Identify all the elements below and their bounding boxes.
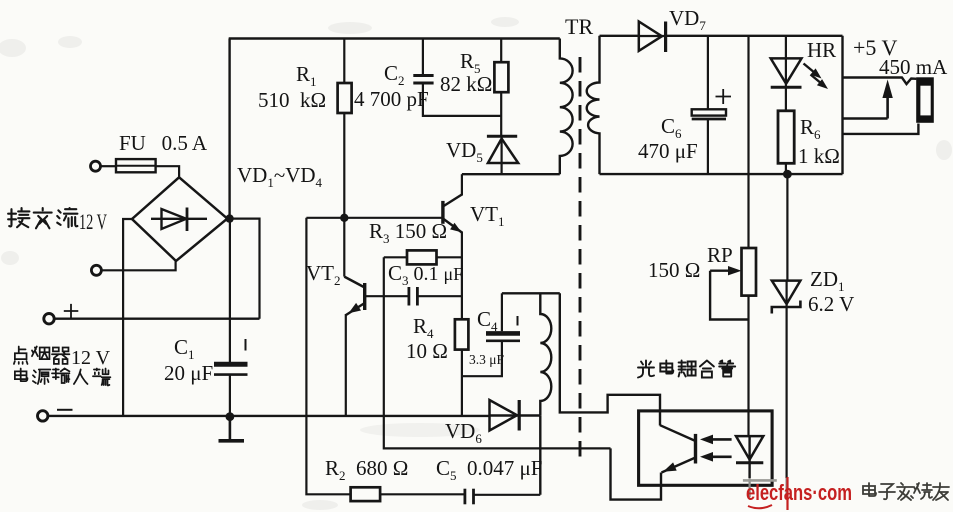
label dian yuan shu ru duan	[15, 368, 111, 385]
resistor R3	[384, 256, 407, 258]
wire bridge minus drop	[123, 219, 132, 416]
transistor VT1	[441, 201, 444, 224]
svg-text:C4: C4	[477, 307, 498, 334]
resistor R4	[455, 319, 469, 349]
HR emission arrows	[804, 64, 819, 76]
terminal minus	[38, 411, 48, 421]
watermark dian zi fa shao you	[863, 483, 949, 500]
svg-text:1 kΩ: 1 kΩ	[798, 144, 840, 168]
svg-text:C2: C2	[384, 61, 405, 88]
wire secondary top rail	[600, 35, 639, 37]
wire secondary bottom rail	[600, 173, 843, 175]
wire R2 drop	[306, 218, 350, 495]
capacitor C5	[463, 489, 466, 505]
svg-text:6.2 V: 6.2 V	[808, 292, 854, 316]
wire output sense lead	[843, 117, 888, 119]
svg-text:150 Ω: 150 Ω	[648, 258, 700, 282]
svg-text:C3 0.1 μF: C3 0.1 μF	[388, 261, 463, 288]
svg-text:FU 0.5 A: FU 0.5 A	[119, 131, 208, 155]
svg-text:10 Ω: 10 Ω	[406, 339, 448, 363]
wire output plus lead	[843, 78, 917, 85]
terminal AC input 2	[91, 265, 101, 275]
resistor R1	[343, 39, 345, 84]
wire C4 top to winding	[502, 292, 560, 294]
bridge rectifier VD1~VD4	[132, 177, 227, 261]
svg-text:4 700 pF: 4 700 pF	[354, 87, 429, 111]
svg-text:VD5: VD5	[446, 138, 483, 165]
svg-text:elecfans·com: elecfans·com	[746, 480, 852, 505]
opto LED	[736, 436, 763, 459]
wire	[156, 166, 180, 177]
wire top rail left	[229, 37, 560, 40]
resistor R6	[778, 111, 794, 164]
svg-text:C6: C6	[661, 114, 682, 141]
optocoupler box	[639, 411, 773, 485]
opto light arrows	[709, 438, 732, 441]
label jie jiao liu 12V (hand-drawn CJK)	[8, 208, 77, 228]
transistor VT2	[363, 283, 366, 310]
LED HR	[785, 36, 787, 88]
capacitor C2	[422, 39, 424, 75]
svg-text:C5 0.047 μF: C5 0.047 μF	[436, 456, 542, 483]
label minus	[57, 409, 73, 411]
svg-text:20 μF: 20 μF	[164, 361, 213, 385]
node R6 ground	[783, 170, 792, 179]
fuse FU	[116, 159, 156, 172]
capacitor C1	[229, 219, 231, 362]
node C1 ground	[226, 412, 235, 421]
svg-text:510 kΩ: 510 kΩ	[258, 88, 326, 112]
svg-text:VD6: VD6	[445, 419, 482, 446]
wire	[101, 165, 116, 167]
wire plus rail	[55, 318, 260, 320]
wire primary bottom	[462, 173, 560, 175]
svg-text:R3 150 Ω: R3 150 Ω	[369, 219, 447, 246]
arrow output up	[886, 93, 889, 119]
svg-text:VD1~VD4: VD1~VD4	[237, 163, 323, 190]
diode VD7	[639, 22, 662, 51]
transformer TR secondary winding	[587, 36, 600, 174]
label C6 plus	[716, 89, 732, 104]
resistor R5	[500, 39, 502, 63]
wire under watermark	[743, 479, 777, 482]
label dian yan qi 12V	[14, 346, 70, 363]
wire	[102, 261, 176, 270]
svg-text:470 μF: 470 μF	[638, 139, 698, 163]
diode VD6	[490, 400, 518, 431]
wire DC plus vertical	[228, 39, 230, 219]
wire VT2 base	[365, 295, 409, 297]
svg-text:VT1: VT1	[470, 202, 505, 229]
svg-text:R2 680 Ω: R2 680 Ω	[325, 456, 408, 483]
svg-text:RP: RP	[707, 243, 733, 267]
svg-text:C1: C1	[174, 335, 195, 362]
terminal plus	[44, 314, 54, 324]
svg-text:82 kΩ: 82 kΩ	[440, 72, 492, 96]
svg-text:R1: R1	[296, 62, 317, 89]
svg-text:ZD1: ZD1	[810, 267, 845, 294]
wire output right vertical	[841, 36, 843, 174]
wire	[230, 219, 260, 319]
capacitor C3	[407, 287, 410, 306]
label plus	[64, 304, 79, 318]
wire winding return to opto	[560, 293, 660, 425]
terminal AC input 1	[91, 161, 101, 171]
svg-text:12 V: 12 V	[79, 209, 107, 234]
node R1 base junction	[340, 214, 348, 222]
svg-text:450 mA: 450 mA	[879, 55, 948, 79]
svg-text:3.3 μF: 3.3 μF	[469, 352, 504, 367]
node bridge plus	[225, 214, 233, 222]
connector plug	[916, 77, 934, 123]
svg-text:12 V: 12 V	[71, 347, 111, 369]
potentiometer RP	[747, 36, 749, 248]
capacitor C6	[707, 36, 709, 110]
transformer TR feedback winding	[540, 293, 551, 415]
diode VD5	[487, 135, 517, 138]
svg-text:HR: HR	[807, 38, 836, 62]
svg-text:VT2: VT2	[306, 261, 341, 288]
wire base rail	[306, 217, 443, 219]
wire feedback lower link	[611, 448, 662, 499]
wire top rail to output	[666, 35, 843, 37]
wire bottom rail	[48, 415, 489, 417]
svg-text:TR: TR	[565, 14, 593, 39]
label guang dian ou he guan	[638, 361, 735, 378]
wire VD6 node vertical	[539, 415, 541, 495]
zener ZD1	[786, 174, 788, 281]
RP wiper	[710, 270, 731, 272]
capacitor C4	[462, 341, 502, 376]
svg-text:VD7: VD7	[669, 6, 706, 33]
transformer core	[579, 57, 582, 462]
resistor R2	[351, 487, 381, 501]
transformer TR primary winding	[560, 39, 573, 175]
svg-text:R4: R4	[413, 314, 434, 341]
opto phototransistor	[694, 434, 697, 464]
wire output minus lead	[843, 124, 919, 134]
wire R3 left drop	[384, 257, 611, 448]
ground stub	[229, 417, 232, 440]
svg-text:R6: R6	[800, 115, 821, 142]
